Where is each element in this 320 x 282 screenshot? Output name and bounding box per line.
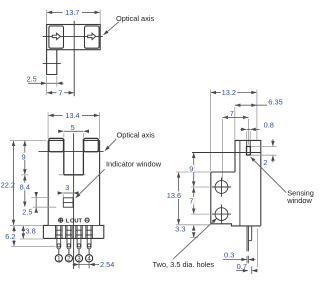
extension at flange bottom (20, 238, 43, 240)
dimension 9 text (front) (21, 153, 26, 160)
dimension 9 (side) text (189, 165, 194, 172)
receiver arrow symbol (88, 33, 96, 39)
optical axis line (front view) (39, 151, 104, 153)
svg-text:6.2: 6.2 (5, 232, 15, 241)
pin 2 shoulder (66, 225, 73, 238)
svg-text:7: 7 (189, 197, 193, 206)
dimension 2.54 line with arrows (73, 264, 79, 266)
right lens window (top view) (85, 26, 100, 48)
svg-text:6.35: 6.35 (268, 98, 282, 107)
slot walls (front view) (64, 139, 84, 175)
dimension 3.8 line with arrows (22, 226, 24, 230)
dimension 13.6 line with arrows (178, 173, 180, 178)
extension at flange bottom (side) (176, 224, 210, 226)
dimension 7 extension lines (222, 119, 248, 180)
dimension 6.35 line with arrows (235, 104, 240, 106)
base flange (front view) (43, 225, 103, 238)
dimension 6.2 text (5, 232, 16, 240)
svg-text:13.4: 13.4 (65, 111, 79, 120)
leader to optical axis (top) (104, 22, 119, 35)
body left edge extension for 7 (46, 87, 48, 95)
extension at pin tip level (11, 245, 55, 247)
internal edge (side view) (239, 140, 241, 225)
svg-text:window: window (286, 196, 312, 205)
dimension 13.7 line with arrows (47, 11, 62, 13)
leader to holes (173, 218, 216, 258)
dimension 7 (side top) line with arrows (223, 116, 228, 118)
dimension 13.2 line with arrows (211, 92, 221, 94)
optical axis line (top view) (43, 35, 103, 37)
svg-text:13.6: 13.6 (167, 191, 181, 200)
dimension 3.3 line with arrows (193, 226, 195, 230)
dimension 6.2 line with arrows (13, 226, 15, 231)
sensing slit walls (247, 140, 251, 146)
left extension at body top (10, 139, 46, 141)
leader to sensing window (251, 157, 287, 193)
dimension 6.35 extension line (234, 107, 236, 140)
circled number 3 (75, 255, 82, 262)
circled number 4 (86, 255, 93, 262)
svg-text:2.5: 2.5 (26, 74, 36, 83)
dimension 0.8 extension lines (247, 131, 251, 140)
svg-text:13.2: 13.2 (222, 88, 236, 97)
pin 1 connector (58, 249, 60, 255)
hole H1 crosshair (212, 177, 231, 196)
dimension 5 extension lines (64, 133, 84, 138)
head outline (side view) (235, 140, 261, 225)
pin 2 (67, 225, 71, 249)
dimension 2.5 extension lines (47, 76, 57, 87)
indicator window (63, 198, 73, 207)
pin 3 shoulder (76, 225, 83, 238)
terminal lug (side view) (249, 226, 252, 241)
body top edge segments (48, 139, 99, 141)
dimension 3 extension lines (63, 194, 73, 197)
dimension 13.4 line with arrows (49, 114, 63, 116)
indicator window divider (63, 202, 73, 204)
dimension 13.7 extension lines (47, 10, 101, 24)
circled number 1 (55, 255, 62, 262)
terminal plus symbol (59, 218, 63, 222)
optical axis line (side view) (192, 152, 261, 154)
body side edges (front view) (48, 140, 99, 225)
extension at body bottom (10, 224, 43, 226)
dimension 0.3 ticks (247, 256, 248, 264)
terminal minus symbol (85, 218, 89, 222)
dimension 5 line with arrows (58, 130, 63, 132)
pin 4 connector (88, 249, 90, 255)
dimension 7 line with arrows (47, 92, 56, 94)
pins (side view) (247, 226, 248, 251)
pin 4 (87, 225, 91, 249)
dimension 0.8 line with arrows (240, 128, 246, 130)
dimension 9 (side) line with arrows (193, 153, 195, 158)
dimension 8.4 line with arrows (24, 175, 26, 180)
pin 4 shoulder (86, 225, 93, 238)
slot bottom (64, 174, 84, 176)
dimension 2.5 line with arrows (28, 82, 46, 84)
sensing window rectangle (247, 147, 251, 156)
leader to indicator window (76, 169, 105, 198)
dimension 7 (side left) line with arrows (193, 188, 195, 193)
extension line indicator window bottom (33, 206, 56, 208)
slot center line (top view) (73, 21, 75, 96)
svg-text:3.3: 3.3 (175, 225, 185, 234)
svg-text:OUT: OUT (70, 219, 83, 225)
svg-text:13.7: 13.7 (65, 8, 79, 17)
extension ticks at slot bottom level (21, 174, 28, 176)
flange outline (side view) (211, 172, 261, 226)
top view body (47, 25, 101, 50)
svg-text:9: 9 (189, 164, 193, 173)
dimension 3 line with arrows (59, 192, 62, 194)
svg-text:Optical axis: Optical axis (116, 14, 155, 23)
left lens cap (front view) (49, 138, 64, 151)
svg-text:0.7: 0.7 (237, 262, 247, 271)
svg-text:2: 2 (67, 256, 71, 263)
svg-text:2: 2 (263, 158, 267, 167)
extension line indicator window top (31, 197, 49, 199)
dimension 0.3 line with arrows (223, 259, 240, 261)
mounting hole H1 (215, 181, 228, 194)
pin 2 connector (68, 249, 70, 255)
dimension 0.7 ticks (251, 266, 253, 274)
right lens cap (front view) (84, 138, 99, 151)
dimension 8.4 text (19, 183, 31, 191)
dimension 2 extension lines (251, 147, 277, 156)
circled number 2 (65, 255, 72, 262)
svg-text:0.3: 0.3 (224, 251, 234, 260)
svg-text:22.2: 22.2 (1, 181, 15, 190)
leader to optical axis (front) (105, 139, 116, 150)
dimension 13.2 extension lines (210, 90, 257, 172)
pin 3 connector (78, 249, 80, 255)
svg-text:2.5: 2.5 (22, 207, 32, 216)
left lens window (top view) (49, 26, 64, 48)
extension at flange top (176, 171, 210, 173)
pin 1 (57, 225, 61, 248)
hole H2 crosshair (212, 205, 231, 224)
dimension 0.7 line with arrows (236, 270, 242, 272)
svg-text:8.4: 8.4 (20, 183, 30, 192)
svg-text:0.8: 0.8 (264, 120, 274, 129)
svg-text:7: 7 (58, 88, 62, 97)
base flange top edge (48, 224, 99, 226)
extension at lug bottom (190, 236, 198, 238)
dimension 2 arrows (272, 139, 274, 146)
dimension 2.5 (front) line with arrows (35, 192, 37, 197)
svg-text:5: 5 (71, 123, 75, 132)
tick across protrusion (43, 62, 61, 64)
svg-text:3: 3 (65, 183, 69, 192)
dimension 13.6 text (165, 191, 182, 198)
svg-text:9: 9 (22, 152, 26, 161)
pin 1 shoulder (56, 225, 63, 238)
pin row extension (257, 229, 259, 268)
svg-text:Two, 3.5 dia. holes: Two, 3.5 dia. holes (153, 260, 215, 269)
dimension 2.54 ticks (79, 261, 89, 269)
svg-text:Optical axis: Optical axis (117, 131, 156, 140)
hole H2 extension (191, 213, 210, 215)
mounting hole H2 (215, 208, 228, 221)
svg-text:2.54: 2.54 (100, 260, 114, 269)
pin 3 (77, 225, 81, 249)
dimension 22.2 line with arrows (13, 141, 15, 146)
svg-text:3.8: 3.8 (25, 226, 35, 235)
svg-text:1: 1 (57, 256, 61, 263)
dimension 9 line with arrows (front) (24, 141, 26, 146)
center line (front view) (73, 133, 75, 269)
slot bottom extensions (59, 174, 86, 176)
dimension 7 (side left) text (189, 197, 194, 204)
dimension 13.4 extension lines (48, 112, 99, 139)
emitter arrow symbol (52, 33, 60, 39)
svg-text:7: 7 (230, 109, 234, 118)
svg-text:Indicator window: Indicator window (106, 159, 162, 168)
hole H1 extension (191, 186, 210, 188)
protrusion (top view) (47, 50, 57, 75)
